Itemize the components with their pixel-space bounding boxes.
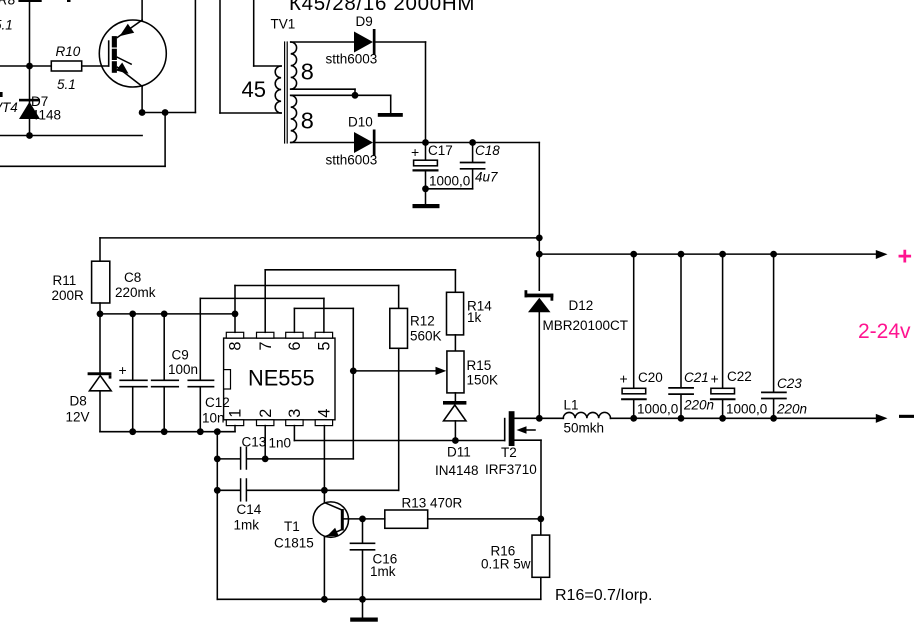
svg-text:C21: C21: [684, 370, 709, 385]
svg-text:T2: T2: [501, 445, 517, 460]
svg-text:3: 3: [286, 409, 304, 418]
svg-text:C1815: C1815: [274, 536, 314, 551]
svg-text:R13 470R: R13 470R: [402, 496, 463, 511]
svg-text:220n: 220n: [683, 398, 714, 413]
svg-text:100n: 100n: [168, 362, 198, 377]
svg-text:+: +: [119, 362, 127, 378]
svg-text:C12: C12: [205, 395, 230, 410]
svg-text:D9: D9: [356, 14, 373, 29]
svg-text:1000,0: 1000,0: [429, 174, 470, 189]
svg-text:stth6003: stth6003: [326, 153, 378, 168]
svg-text:C18: C18: [475, 143, 500, 158]
svg-text:IRF3710: IRF3710: [485, 462, 537, 477]
svg-text:+: +: [411, 144, 419, 160]
svg-text:stth6003: stth6003: [326, 52, 378, 67]
svg-text:R11: R11: [53, 273, 77, 288]
svg-text:150K: 150K: [467, 373, 499, 388]
svg-text:0.1R 5w: 0.1R 5w: [481, 557, 531, 572]
svg-text:5: 5: [316, 342, 334, 351]
svg-text:7: 7: [257, 342, 275, 351]
svg-text:R12: R12: [410, 314, 435, 329]
svg-text:560K: 560K: [410, 329, 442, 344]
svg-text:R16=0.7/Iorp.: R16=0.7/Iorp.: [555, 587, 652, 604]
svg-text:L1: L1: [564, 398, 579, 413]
svg-text:8: 8: [227, 342, 245, 351]
svg-text:C8: C8: [124, 270, 141, 285]
svg-text:R8: R8: [0, 0, 16, 8]
svg-text:220mk: 220mk: [115, 285, 156, 300]
svg-text:1000,0: 1000,0: [726, 402, 767, 417]
svg-text:1k: 1k: [467, 310, 482, 325]
svg-text:+: +: [620, 371, 628, 387]
svg-text:C17: C17: [428, 143, 453, 158]
svg-text:5.1: 5.1: [0, 18, 13, 33]
svg-text:4: 4: [316, 409, 334, 418]
svg-text:1000,0: 1000,0: [637, 402, 678, 417]
svg-text:5.1: 5.1: [57, 77, 76, 92]
svg-text:220n: 220n: [776, 402, 807, 417]
svg-text:1mk: 1mk: [234, 518, 260, 533]
svg-text:C20: C20: [638, 370, 663, 385]
svg-text:8: 8: [301, 59, 314, 85]
svg-text:200R: 200R: [52, 288, 85, 303]
svg-text:1: 1: [227, 409, 245, 418]
svg-text:1mk: 1mk: [370, 564, 396, 579]
svg-text:C9: C9: [172, 348, 189, 363]
svg-text:+: +: [711, 371, 719, 387]
svg-text:6: 6: [286, 342, 304, 351]
svg-text:VT4: VT4: [0, 100, 18, 115]
svg-text:D10: D10: [348, 115, 373, 130]
svg-text:50mkh: 50mkh: [564, 421, 605, 436]
svg-text:45: 45: [242, 77, 266, 102]
svg-text:К45/28/16 2000НМ: К45/28/16 2000НМ: [289, 0, 475, 15]
svg-text:D11: D11: [447, 445, 471, 460]
svg-text:C22: C22: [727, 369, 752, 384]
svg-text:4148: 4148: [31, 108, 61, 123]
svg-text:10n: 10n: [202, 411, 225, 426]
svg-text:8: 8: [301, 108, 314, 134]
svg-text:R15: R15: [467, 358, 492, 373]
svg-text:TV1: TV1: [271, 17, 296, 32]
svg-text:IN4148: IN4148: [435, 463, 479, 478]
svg-text:1n0: 1n0: [269, 436, 292, 451]
svg-text:2-24v: 2-24v: [858, 320, 911, 343]
svg-text:NE555: NE555: [248, 365, 315, 390]
svg-text:C13: C13: [242, 435, 267, 450]
svg-text:+: +: [898, 243, 913, 271]
svg-text:2: 2: [257, 409, 275, 418]
svg-text:D8: D8: [70, 394, 87, 409]
svg-text:T1: T1: [284, 519, 300, 534]
svg-text:R10: R10: [56, 44, 81, 59]
svg-text:C14: C14: [237, 502, 262, 517]
svg-text:MBR20100CT: MBR20100CT: [543, 318, 629, 333]
svg-text:D12: D12: [569, 298, 594, 313]
svg-text:4u7: 4u7: [475, 170, 498, 185]
svg-text:C23: C23: [777, 376, 802, 391]
svg-text:12V: 12V: [66, 410, 90, 425]
